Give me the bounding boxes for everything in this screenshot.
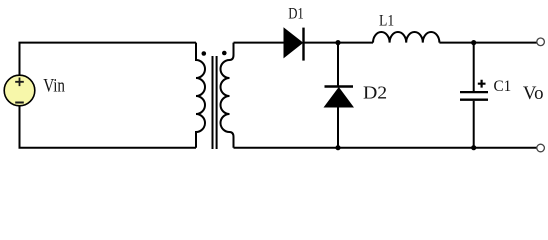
diode D2 <box>325 85 354 87</box>
svg-text:L1: L1 <box>379 11 394 30</box>
capacitor C1 plate top <box>460 91 488 93</box>
minus sign of Vin <box>15 102 24 104</box>
wire: L1 to output terminal <box>439 42 536 44</box>
dot secondary polarity <box>222 51 227 56</box>
transformer secondary winding <box>221 43 234 148</box>
wire: C1 branch upper <box>473 43 475 91</box>
svg-text:C1: C1 <box>494 77 512 95</box>
diode D1 <box>284 28 303 57</box>
transformer core line right <box>216 56 218 149</box>
wire: bottom rail primary side <box>20 106 197 148</box>
node: L1 / C1 junction <box>471 40 476 45</box>
svg-text:D2: D2 <box>363 82 387 102</box>
svg-text:Vin: Vin <box>43 76 65 96</box>
transformer core line left <box>212 56 214 149</box>
transformer primary winding <box>196 43 205 148</box>
dot primary polarity <box>202 51 207 56</box>
plus sign of C1 <box>478 80 486 88</box>
inductor L1 <box>373 32 439 43</box>
wire: C1 branch lower <box>473 101 475 148</box>
terminal: output positive <box>537 38 545 46</box>
node: C1 bottom on rail <box>471 145 476 150</box>
terminal: output negative <box>537 144 545 152</box>
svg-text:D1: D1 <box>288 4 304 23</box>
voltage source Vin <box>4 75 35 106</box>
node: D2 anode on bottom rail <box>335 145 340 150</box>
wire: D2 branch vertical <box>337 43 339 87</box>
wire: secondary top to D1 <box>234 42 285 44</box>
capacitor C1 plate bottom <box>460 99 488 101</box>
svg-text:Vo: Vo <box>523 84 544 104</box>
wire: bottom rail secondary side <box>234 147 537 149</box>
wire: D1 to L1 <box>304 42 374 44</box>
wire: top rail primary side <box>20 43 197 75</box>
plus sign of Vin <box>15 78 24 87</box>
node: D1 cathode / D2 junction <box>335 40 340 45</box>
